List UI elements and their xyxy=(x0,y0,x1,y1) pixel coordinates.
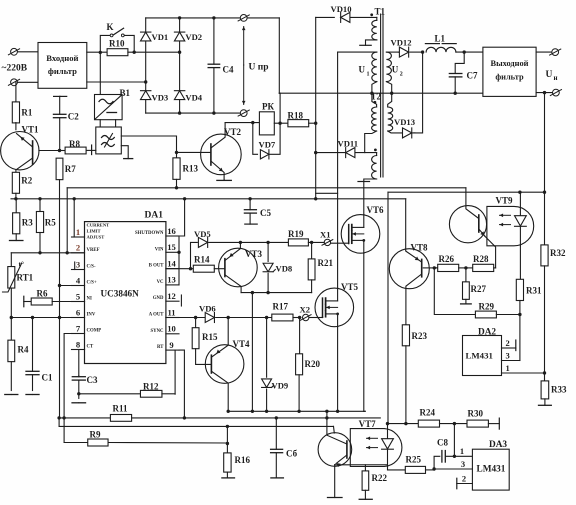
svg-text:Входной: Входной xyxy=(46,53,78,63)
wire B1 right output to R13 xyxy=(121,136,176,157)
svg-text:U пр: U пр xyxy=(249,63,269,73)
svg-text:X1: X1 xyxy=(320,230,331,240)
svg-text:VT5: VT5 xyxy=(341,282,359,292)
wire VT5 source down xyxy=(336,327,339,413)
svg-text:VIN: VIN xyxy=(155,247,164,252)
capacitor C1 xyxy=(26,318,53,391)
svg-text:LM431: LM431 xyxy=(477,465,506,475)
wire U1 top lead xyxy=(338,51,377,53)
winding U2 xyxy=(386,52,402,82)
svg-text:R20: R20 xyxy=(305,359,321,369)
resistor R15 xyxy=(192,318,218,365)
switch K xyxy=(100,22,134,52)
DA1 pin8 CT descender xyxy=(79,350,85,376)
zener VD9 xyxy=(262,318,289,413)
DA1 pin2 VREF line left xyxy=(11,252,84,254)
ground R27 xyxy=(461,303,472,305)
wire aux column x388 xyxy=(387,192,389,423)
svg-text:14: 14 xyxy=(167,258,176,268)
svg-text:C8: C8 xyxy=(437,438,448,448)
svg-text:2: 2 xyxy=(76,243,80,253)
svg-text:SHUTDOWN: SHUTDOWN xyxy=(135,231,164,236)
svg-text:6: 6 xyxy=(76,307,81,317)
wire X2 to VT5 gate xyxy=(309,317,323,319)
svg-text:R10: R10 xyxy=(109,39,125,49)
svg-text:C3: C3 xyxy=(87,375,98,385)
wire rail R11 (y418) xyxy=(57,416,380,419)
svg-text:VT2: VT2 xyxy=(224,127,242,137)
svg-text:B OUT: B OUT xyxy=(149,264,165,269)
svg-text:R11: R11 xyxy=(113,404,129,414)
diode VD7 xyxy=(253,123,280,159)
terminal U n bottom xyxy=(550,89,561,96)
resistor R30 xyxy=(467,409,499,430)
ground C6 xyxy=(271,477,284,479)
diode VD4 xyxy=(174,91,202,103)
svg-text:R8: R8 xyxy=(69,139,80,149)
svg-text:R14: R14 xyxy=(194,255,210,265)
zener VD8 xyxy=(263,242,293,292)
svg-text:VD4: VD4 xyxy=(185,93,202,103)
svg-text:R22: R22 xyxy=(372,473,388,483)
diode VD10 xyxy=(331,4,377,22)
wire rail y426 xyxy=(59,418,333,428)
ground C3 xyxy=(72,402,86,404)
svg-text:RT: RT xyxy=(157,345,164,350)
svg-text:R13: R13 xyxy=(183,164,199,174)
wire R28 to VT9 emitter col xyxy=(494,267,496,269)
transistor VT8 xyxy=(389,243,429,326)
relay contact RK xyxy=(259,102,274,135)
wire R9 line xyxy=(64,442,229,445)
wire rail VREF (rail2) xyxy=(11,197,406,200)
ground C1 xyxy=(26,394,39,396)
svg-text:VT7: VT7 xyxy=(359,419,377,429)
wire A OUT line xyxy=(166,316,205,319)
svg-text:VD6: VD6 xyxy=(199,304,216,314)
svg-text:R32: R32 xyxy=(550,248,566,258)
svg-text:R7: R7 xyxy=(65,164,76,174)
svg-text:R6: R6 xyxy=(37,289,48,299)
wire source common line y411 xyxy=(227,410,366,413)
wire DC+ top rail xyxy=(146,16,280,19)
terminal X1 xyxy=(320,230,333,246)
ground R33 xyxy=(539,404,552,406)
resistor R33 xyxy=(541,379,567,405)
svg-text:7: 7 xyxy=(76,323,81,333)
resistor R6 xyxy=(24,289,85,307)
svg-text:VT8: VT8 xyxy=(411,243,429,253)
ground VT2 emitter xyxy=(217,179,231,182)
ground B1 lower box xyxy=(121,146,132,159)
svg-text:1: 1 xyxy=(76,227,80,237)
wire VT7 LED anode line xyxy=(386,422,419,425)
wire R7 column down xyxy=(59,180,61,418)
svg-text:R26: R26 xyxy=(439,254,455,264)
DA2 pin3 xyxy=(502,351,520,361)
wire rail1 descender to VREF line xyxy=(66,188,69,255)
block input filter (Vkhodnoy filtr) xyxy=(38,43,87,89)
svg-text:VREF: VREF xyxy=(87,248,100,253)
resistor R3 xyxy=(13,199,34,234)
label U n xyxy=(546,70,558,82)
wire output bottom to terminal xyxy=(536,91,552,94)
transistor VT2 xyxy=(201,123,242,180)
ic DA2 LM431 xyxy=(463,328,502,376)
svg-text:LM431: LM431 xyxy=(466,351,493,361)
wire R13 to VT2 base xyxy=(175,151,211,154)
svg-text:R17: R17 xyxy=(273,302,289,312)
svg-text:R12: R12 xyxy=(143,382,159,392)
svg-text:9: 9 xyxy=(169,340,173,350)
wire W4 bottom to VD13 xyxy=(388,131,415,133)
svg-text:15: 15 xyxy=(167,242,176,252)
svg-text:VD3: VD3 xyxy=(152,93,169,103)
DA3 pin1 digit xyxy=(460,446,464,456)
block B1 lower box (variable AC) xyxy=(96,127,122,154)
wire rail2 corner to VT8 xyxy=(405,199,407,251)
wire VT6 source down xyxy=(363,253,365,411)
svg-text:R28: R28 xyxy=(473,254,489,264)
svg-text:R27: R27 xyxy=(471,284,487,294)
wire VT2 collector to RK xyxy=(225,121,259,124)
svg-text:R24: R24 xyxy=(420,408,436,418)
DA1 pin9 RT descender xyxy=(179,350,186,419)
svg-text:1: 1 xyxy=(367,72,370,78)
svg-text:1: 1 xyxy=(460,446,464,456)
wire VT6 drain riser xyxy=(363,182,365,215)
DA3 pin2 line xyxy=(457,474,473,489)
DA1 pin4 wire to R7 column xyxy=(58,284,85,287)
arrows VT9 optocoupler xyxy=(500,214,511,227)
svg-text:11: 11 xyxy=(167,307,175,317)
wire feedback rail xyxy=(388,191,545,194)
capacitor C3 xyxy=(72,375,98,398)
resistor R16 xyxy=(224,453,251,478)
svg-text:NI: NI xyxy=(87,297,92,302)
ground R4 xyxy=(5,394,18,396)
wire R16 riser xyxy=(226,426,228,453)
svg-text:3: 3 xyxy=(76,259,80,269)
svg-text:4: 4 xyxy=(76,275,81,285)
diode VD1 xyxy=(141,32,169,42)
svg-text:C4: C4 xyxy=(223,65,234,75)
block output filter (Vykhodnoy filtr) xyxy=(483,47,536,96)
label ~220V xyxy=(2,64,28,74)
svg-text:X2: X2 xyxy=(300,305,311,315)
svg-text:LIMIT: LIMIT xyxy=(87,229,101,234)
DA1 pin numbers left xyxy=(76,227,81,349)
svg-text:VT3: VT3 xyxy=(245,249,263,259)
DA1 pin3 tick xyxy=(74,262,76,270)
svg-text:R25: R25 xyxy=(406,455,422,465)
svg-text:VT4: VT4 xyxy=(233,339,251,349)
wire bridge bottom rail xyxy=(146,111,241,114)
resistor R27 xyxy=(463,268,487,304)
svg-text:GND: GND xyxy=(153,296,164,301)
svg-text:3: 3 xyxy=(461,459,465,469)
wire top rail corner down to T2 rail xyxy=(278,18,280,93)
svg-text:R1: R1 xyxy=(21,108,32,118)
svg-text:3: 3 xyxy=(506,351,510,361)
svg-text:T2: T2 xyxy=(371,91,382,101)
transformer core xyxy=(381,14,383,177)
ground R22 xyxy=(359,498,372,500)
wire T2 primary rail xyxy=(279,92,483,95)
DA3 pin3 line xyxy=(434,459,472,469)
terminal U n top xyxy=(550,49,561,56)
capacitor C7 xyxy=(449,52,478,93)
LED VT9 xyxy=(515,192,527,246)
diode VD5 xyxy=(191,229,241,269)
DA1 pin9 to R12 riser xyxy=(174,350,176,394)
resistor R29 xyxy=(434,268,520,318)
transistor VT1 xyxy=(1,125,39,170)
wire VT7 emitter to ground xyxy=(328,465,343,498)
diode VD12 xyxy=(391,38,425,58)
svg-text:DA2: DA2 xyxy=(478,328,496,338)
wire input top to filter xyxy=(18,51,38,53)
wire VD13 to L1 node xyxy=(414,52,423,133)
wire B1 input riser xyxy=(99,52,101,94)
svg-text:VD13: VD13 xyxy=(394,117,415,127)
resistor R1 xyxy=(12,82,33,129)
wire R10 to bridge xyxy=(128,51,181,54)
svg-text:R19: R19 xyxy=(288,229,304,239)
svg-text:U: U xyxy=(546,70,553,80)
wire VT7 base to rail426 xyxy=(333,426,336,433)
svg-text:VD7: VD7 xyxy=(259,139,276,149)
svg-text:12: 12 xyxy=(167,291,176,301)
DA1 pin6 INV line xyxy=(10,316,85,319)
wire bridge column right xyxy=(179,18,181,113)
resistor R8 xyxy=(60,139,87,154)
wire gate drive line xyxy=(239,241,314,244)
wire VT1 base to node xyxy=(39,149,61,152)
transformer T2 label xyxy=(371,91,382,103)
svg-text:16: 16 xyxy=(167,226,176,236)
svg-text:C/S+: C/S+ xyxy=(87,281,97,286)
svg-text:UC3846N: UC3846N xyxy=(101,288,140,298)
resistor R14 xyxy=(166,255,214,273)
svg-text:R21: R21 xyxy=(318,258,334,268)
diode VD13 xyxy=(394,117,415,138)
wire U1 bottom to T2 xyxy=(372,82,377,107)
svg-text:R23: R23 xyxy=(412,331,428,341)
svg-text:VD8: VD8 xyxy=(276,264,293,274)
svg-text:DA3: DA3 xyxy=(489,440,507,450)
svg-text:R18: R18 xyxy=(288,111,304,121)
resistor R31 xyxy=(516,279,542,300)
wire VT3 emitter rail xyxy=(241,291,312,294)
svg-text:A OUT: A OUT xyxy=(149,313,165,318)
capacitor C4 xyxy=(208,18,234,113)
svg-text:U: U xyxy=(392,65,399,75)
svg-text:н: н xyxy=(554,74,558,82)
wire filter top output to R10 xyxy=(87,51,107,54)
ground R16 xyxy=(222,477,235,479)
svg-text:B1: B1 xyxy=(120,88,131,98)
diode VD11 xyxy=(316,139,377,158)
resistor R32 xyxy=(541,245,566,379)
wire L1 to output filter xyxy=(456,50,483,53)
resistor R10 xyxy=(107,39,128,56)
resistor R18 xyxy=(288,111,309,127)
DA1 pin numbers right xyxy=(167,226,176,350)
svg-text:VD12: VD12 xyxy=(391,38,412,48)
svg-text:VT1: VT1 xyxy=(22,125,40,135)
transistor VT3 xyxy=(214,242,262,292)
mosfet VT5 xyxy=(315,282,359,327)
resistor R11 xyxy=(110,404,131,422)
svg-text:R3: R3 xyxy=(22,218,33,228)
resistor R9 xyxy=(88,430,228,447)
terminal input L1 (~220V top) xyxy=(8,48,19,55)
block B1 AC-DC box xyxy=(95,88,131,120)
svg-text:CURRENT: CURRENT xyxy=(87,223,110,228)
resistor R7 xyxy=(56,158,76,180)
svg-text:VT6: VT6 xyxy=(367,205,385,215)
terminal U pr top xyxy=(238,15,249,22)
wire bridge column left xyxy=(145,18,147,113)
wire line B (U1 top to VT5 drain) xyxy=(337,52,339,288)
wire line A (VD10 cathode column) xyxy=(314,17,317,198)
label U pr with arrow xyxy=(242,27,269,105)
wire R18 to VD10 line xyxy=(309,122,318,125)
DA2 pin2 xyxy=(502,338,516,351)
svg-text:5: 5 xyxy=(76,291,80,301)
wire R31 to DA2 pin3 xyxy=(518,301,521,361)
svg-text:R31: R31 xyxy=(526,286,542,296)
svg-text:T1: T1 xyxy=(375,7,386,17)
svg-text:U: U xyxy=(359,65,366,75)
svg-text:R15: R15 xyxy=(202,332,218,342)
svg-text:фильтр: фильтр xyxy=(48,66,77,76)
svg-text:t°: t° xyxy=(19,260,25,269)
svg-text:R4: R4 xyxy=(18,345,29,355)
svg-text:VD9: VD9 xyxy=(272,381,289,391)
winding U1 xyxy=(359,52,377,82)
winding T2 bottom (W5) xyxy=(358,153,377,182)
svg-text:RT1: RT1 xyxy=(17,273,34,283)
resistor R21 xyxy=(308,242,333,292)
svg-text:VD5: VD5 xyxy=(194,229,211,239)
svg-text:2: 2 xyxy=(462,474,466,484)
mosfet VT6 xyxy=(331,205,384,253)
resistor R5 xyxy=(36,199,56,255)
diode VD2 xyxy=(174,32,202,42)
terminal U pr bottom xyxy=(238,110,249,117)
svg-text:C5: C5 xyxy=(260,208,271,218)
thermistor RT1 xyxy=(3,253,34,318)
svg-text:R29: R29 xyxy=(479,302,495,312)
svg-text:Сб: Сб xyxy=(286,449,298,459)
wire RK to R18 xyxy=(274,122,287,125)
svg-text:SYNC: SYNC xyxy=(150,329,164,334)
transformer T1 label and dot xyxy=(370,7,385,17)
svg-text:VT9: VT9 xyxy=(496,196,514,206)
svg-text:VD10: VD10 xyxy=(331,4,352,14)
winding T2 right (W4) xyxy=(388,107,393,131)
wire filter bottom to bridge xyxy=(87,80,148,83)
wire VT8 base to R26 node xyxy=(423,266,437,269)
svg-text:2: 2 xyxy=(400,72,403,78)
wire VT9 emitter down xyxy=(485,236,496,268)
transformer T1 primary winding xyxy=(360,17,377,45)
winding T2 left (W3) xyxy=(372,107,377,131)
wire VT9 LED to R31 xyxy=(519,192,522,279)
svg-text:L1: L1 xyxy=(435,34,446,44)
capacitor C6 xyxy=(271,418,298,478)
svg-text:VD1: VD1 xyxy=(152,32,169,42)
svg-text:C7: C7 xyxy=(467,71,478,81)
wire VT3 emitter descender xyxy=(251,293,254,413)
svg-text:C1: C1 xyxy=(42,373,53,383)
DA2 pin1 xyxy=(502,363,545,373)
svg-text:VC: VC xyxy=(157,280,164,285)
resistor R23 xyxy=(402,325,427,424)
wire R24 node to DA3 pin1 xyxy=(453,424,456,458)
svg-text:VD2: VD2 xyxy=(185,32,202,42)
svg-text:K: K xyxy=(107,22,114,32)
transistor VT9 xyxy=(449,188,513,243)
svg-text:1: 1 xyxy=(506,363,510,373)
DA1 pin16 riser xyxy=(179,199,185,236)
resistor R22 xyxy=(362,465,387,500)
DA1 pin ladder separators xyxy=(72,236,182,350)
transistor VT4 xyxy=(205,318,250,412)
wire emitter to R22 xyxy=(335,464,388,466)
optocoupler VT9 LED enclosure xyxy=(487,206,534,245)
diode VD3 xyxy=(141,91,169,103)
resistor R24 xyxy=(418,408,467,428)
svg-text:CT: CT xyxy=(87,345,94,350)
svg-text:R2: R2 xyxy=(21,176,32,186)
wire rail1 top xyxy=(67,186,466,189)
DA1 pin7 COMP descender xyxy=(62,334,84,443)
svg-text:фильтр: фильтр xyxy=(495,73,524,82)
svg-text:10: 10 xyxy=(167,324,176,334)
wire U2 bottom to T2 xyxy=(386,82,391,107)
svg-text:R5: R5 xyxy=(45,218,56,228)
svg-text:~220В: ~220В xyxy=(2,64,28,74)
wire B1 left lead with stub bar xyxy=(86,145,96,155)
terminal input L2 (~220V bottom) xyxy=(8,79,19,86)
svg-text:8: 8 xyxy=(76,339,81,349)
resistor R17 xyxy=(272,302,302,321)
resistor R26 xyxy=(434,254,458,272)
resistor R28 xyxy=(473,254,494,272)
inductor L1 xyxy=(425,34,456,53)
LED VT7 xyxy=(382,424,394,470)
wire B1 interbox links xyxy=(100,120,115,127)
svg-text:R33: R33 xyxy=(551,385,567,395)
DA1 inner pin labels left xyxy=(87,223,110,350)
resistor R4 xyxy=(8,318,29,391)
optocoupler VT7 transistor xyxy=(318,411,376,467)
wire output top to terminal xyxy=(536,51,552,53)
capacitor C8 xyxy=(432,438,472,471)
wire VD10 line xyxy=(316,16,335,18)
resistor R19 xyxy=(288,229,324,246)
svg-text:DA1: DA1 xyxy=(145,211,164,221)
svg-text:VD11: VD11 xyxy=(338,139,359,149)
DA1 inner pin labels right xyxy=(135,231,164,350)
ic DA1 body xyxy=(85,211,166,364)
DA1 pin1 riser to VREF rail xyxy=(73,199,75,237)
resistor R12 xyxy=(79,382,175,398)
arrows VT7 optocoupler xyxy=(367,437,378,450)
